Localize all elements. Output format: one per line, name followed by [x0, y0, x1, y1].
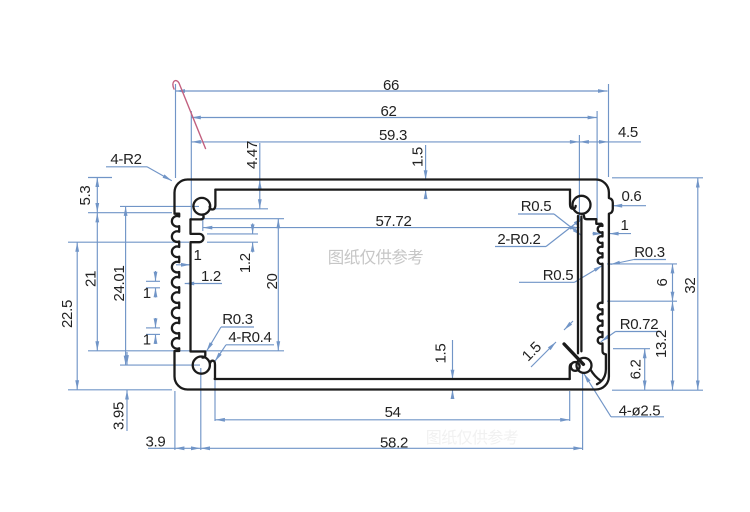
svg-text:4-ø2.5: 4-ø2.5 [619, 402, 661, 419]
svg-text:62: 62 [380, 103, 396, 120]
svg-text:4.47: 4.47 [244, 141, 261, 169]
svg-text:0.6: 0.6 [622, 188, 642, 205]
svg-text:58.2: 58.2 [380, 435, 408, 452]
svg-text:R0.5: R0.5 [543, 267, 574, 284]
svg-text:1.5: 1.5 [433, 344, 450, 364]
svg-text:54: 54 [385, 404, 401, 421]
svg-text:24.01: 24.01 [111, 265, 128, 301]
svg-text:3.95: 3.95 [111, 402, 128, 430]
svg-text:R0.3: R0.3 [222, 311, 253, 328]
svg-text:1: 1 [143, 332, 151, 349]
svg-text:1.2: 1.2 [237, 253, 254, 273]
svg-text:6: 6 [654, 278, 671, 286]
svg-text:4-R2: 4-R2 [110, 151, 141, 168]
svg-text:2-R0.2: 2-R0.2 [497, 231, 540, 248]
svg-text:5.3: 5.3 [77, 186, 94, 206]
svg-text:R0.5: R0.5 [521, 198, 552, 215]
svg-text:R0.3: R0.3 [634, 244, 665, 261]
svg-text:59.3: 59.3 [379, 127, 407, 144]
svg-text:1: 1 [193, 247, 201, 264]
svg-text:图纸仅供参考: 图纸仅供参考 [426, 429, 519, 447]
svg-text:3.9: 3.9 [146, 434, 166, 451]
svg-text:4.5: 4.5 [618, 124, 638, 141]
svg-text:21: 21 [82, 271, 99, 287]
svg-text:20: 20 [264, 273, 281, 289]
svg-text:图纸仅供参考: 图纸仅供参考 [328, 248, 424, 267]
svg-text:66: 66 [383, 77, 399, 94]
svg-text:1: 1 [620, 217, 628, 234]
svg-text:1.2: 1.2 [201, 268, 221, 285]
svg-text:57.72: 57.72 [375, 213, 411, 230]
svg-text:32: 32 [682, 278, 699, 294]
svg-text:1: 1 [143, 285, 151, 302]
svg-text:22.5: 22.5 [59, 300, 76, 328]
svg-text:6.2: 6.2 [628, 359, 645, 379]
svg-text:1.5: 1.5 [410, 147, 427, 167]
svg-text:4-R0.4: 4-R0.4 [228, 329, 271, 346]
svg-text:13.2: 13.2 [653, 330, 670, 358]
